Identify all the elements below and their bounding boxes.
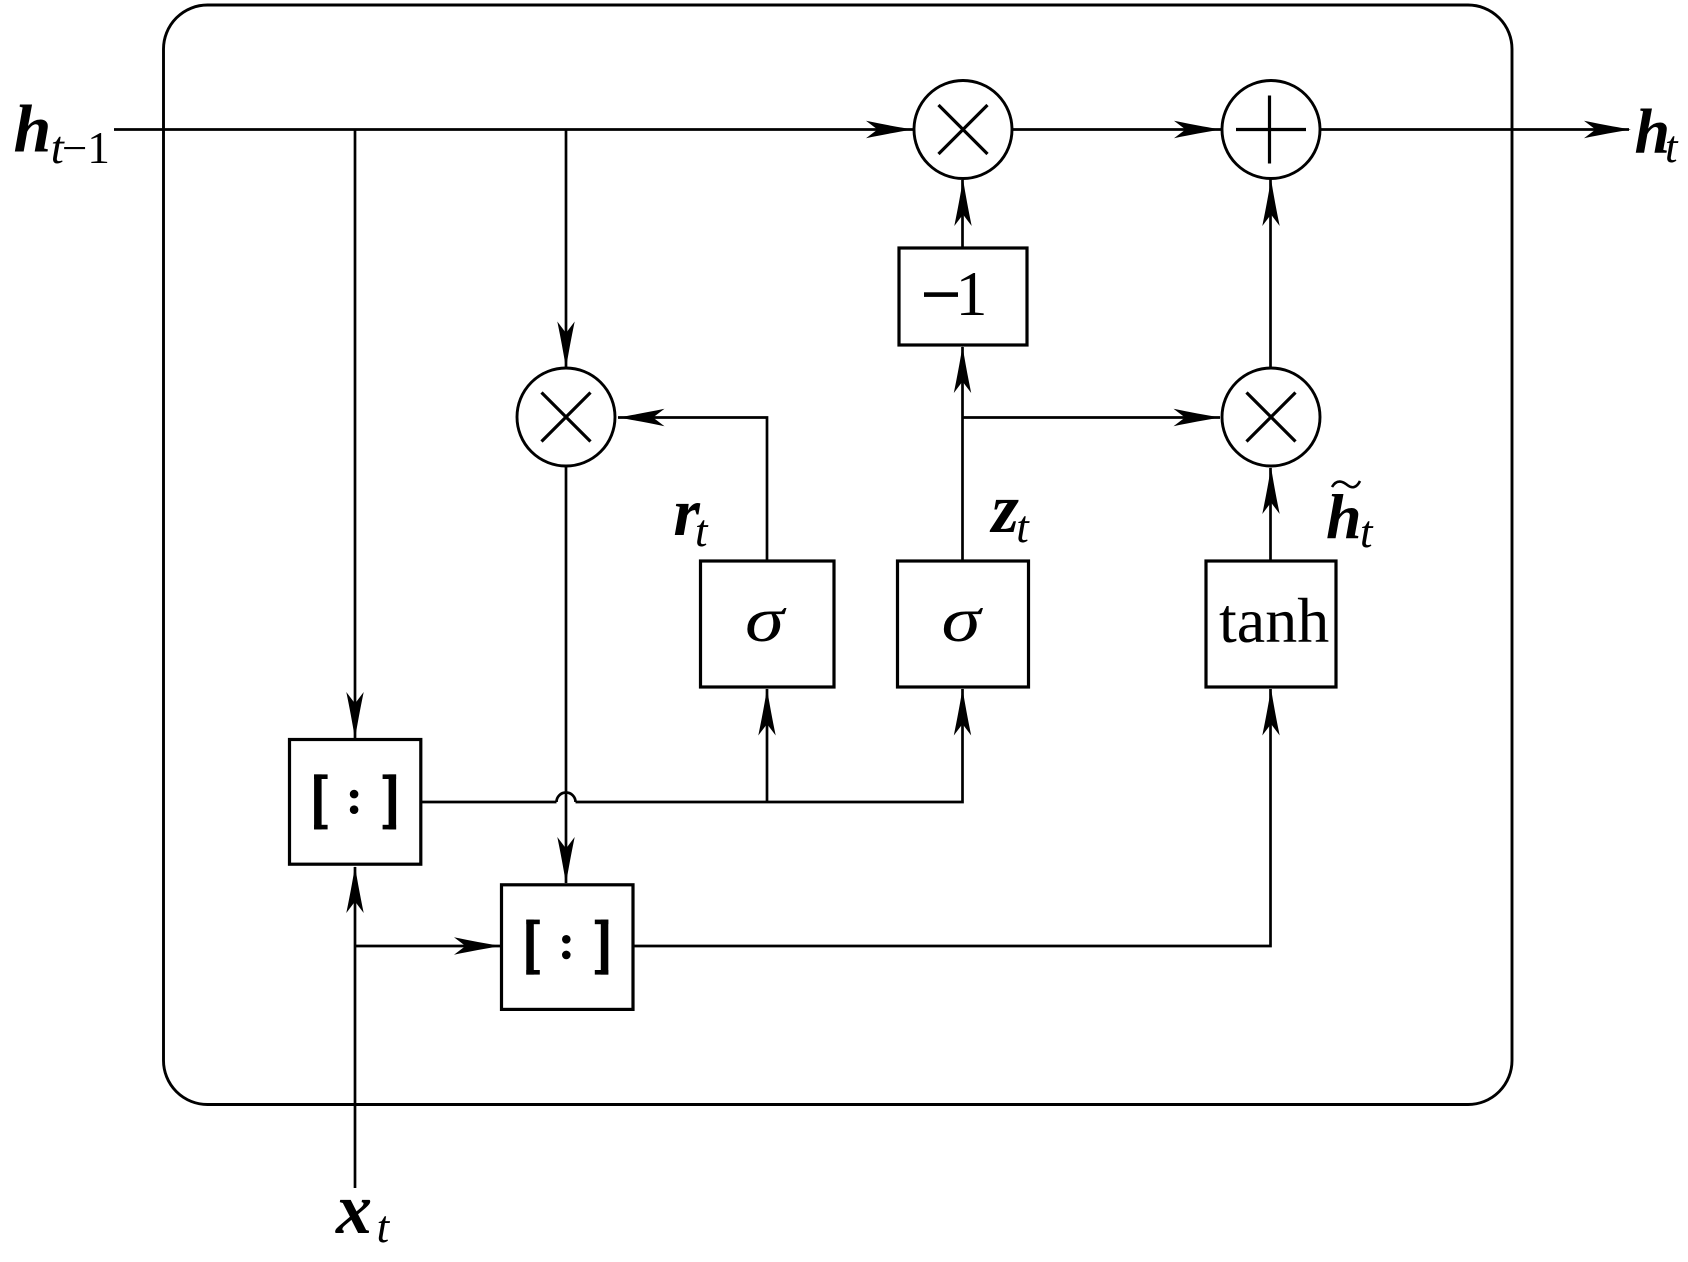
svg-text:t: t xyxy=(1665,122,1679,172)
svg-text:h: h xyxy=(14,90,52,166)
svg-text:h: h xyxy=(1326,481,1362,552)
svg-text:t: t xyxy=(695,506,709,556)
svg-text:x: x xyxy=(335,1169,372,1249)
svg-text:z: z xyxy=(990,471,1019,548)
svg-text:σ: σ xyxy=(745,585,788,655)
svg-text:tanh: tanh xyxy=(1219,585,1329,656)
svg-text:σ: σ xyxy=(942,585,985,655)
svg-text:−1: −1 xyxy=(62,123,110,173)
svg-text:t: t xyxy=(1360,507,1374,557)
svg-text:1: 1 xyxy=(956,258,988,329)
svg-text:t: t xyxy=(377,1202,391,1252)
svg-text:t: t xyxy=(1016,502,1030,552)
